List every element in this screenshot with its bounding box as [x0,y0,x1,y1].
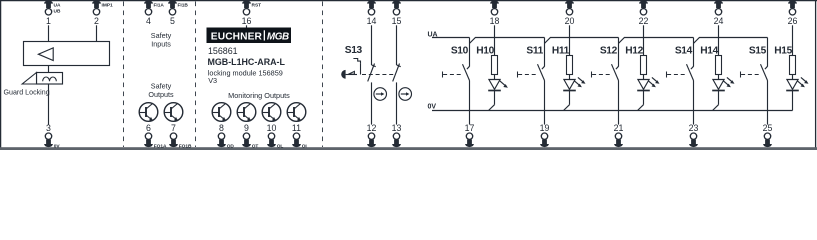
svg-text:UA: UA [54,2,61,8]
svg-text:IMP1: IMP1 [102,2,114,8]
svg-text:22: 22 [639,16,649,26]
svg-text:19: 19 [540,123,550,133]
transistor Q11 (monitoring output OI) [287,103,306,122]
dashed section separator [195,2,197,148]
svg-text:RST: RST [252,2,262,8]
UA supply rail [432,38,768,44]
terminal 14 (top plug) [367,1,377,26]
LED H12 [637,75,659,111]
EUCHNER MGB logo bar [207,28,292,44]
wire from terminal 2 to control block [96,25,98,41]
transistor Q9 (monitoring output OT) [237,103,256,122]
svg-text:S14: S14 [675,45,693,56]
svg-text:1: 1 [46,16,51,26]
svg-text:25: 25 [763,123,773,133]
terminal 11 (bottom plug) [292,123,308,149]
terminal 24 (top plug) [714,1,724,26]
indicator H10: wire from terminal [494,25,496,55]
switch S15 contact [761,38,768,125]
LED H10 [488,75,508,111]
terminal 10 (bottom plug) [267,123,284,149]
svg-text:S10: S10 [451,45,469,56]
svg-text:FO1A: FO1A [154,144,167,150]
svg-text:H10: H10 [476,45,494,56]
svg-text:9: 9 [244,123,249,133]
wire block to solenoid [48,66,50,73]
svg-text:locking module 156859: locking module 156859 [208,68,283,77]
svg-text:13: 13 [392,123,402,133]
terminal 5 (top plug) [168,0,188,25]
S13 actuation-direction circle (column 12) [374,88,387,101]
wire from terminal 1 to control block [48,25,50,41]
indicator H12: wire from terminal [643,25,645,55]
svg-text:Safety: Safety [151,81,172,90]
svg-text:Inputs: Inputs [151,40,171,49]
solenoid box [37,73,63,85]
svg-text:S12: S12 [600,45,618,56]
resistor of H12 [641,56,647,75]
terminal 4 (top plug) [144,0,164,25]
svg-text:156861: 156861 [208,46,238,56]
svg-text:S13: S13 [345,45,363,56]
terminal 20 (top plug) [565,1,575,26]
wire solenoid to terminal 3 [48,84,50,125]
svg-text:FI1B: FI1B [178,2,189,8]
svg-text:15: 15 [392,16,402,26]
actuation dashes for S14 [667,72,686,78]
svg-text:EUCHNER: EUCHNER [211,32,263,43]
terminal 17 (bottom plug) [465,123,475,147]
svg-text:21: 21 [614,123,624,133]
resistor of H15 [790,56,796,75]
LED H14 [712,75,734,111]
svg-text:10: 10 [267,123,277,133]
svg-text:11: 11 [292,123,301,133]
svg-text:Monitoring Outputs: Monitoring Outputs [228,91,290,100]
terminal 12 (bottom plug) [367,123,377,147]
svg-text:MGB-L1HC-ARA-L: MGB-L1HC-ARA-L [208,57,286,67]
svg-text:3: 3 [46,123,51,133]
frame: right border [815,0,817,148]
frame: left border [0,0,2,148]
svg-text:MGB: MGB [267,32,289,43]
terminal 25 (bottom plug) [763,123,773,147]
terminal 18 (top plug) [490,1,500,26]
S13 contact (column of terminals 15/13) [393,25,401,124]
frame: top border [0,0,817,2]
terminal 23 (bottom plug) [689,123,699,147]
wire terminal 16 to logo block [246,25,248,28]
svg-text:UB: UB [54,9,61,15]
svg-text:24: 24 [714,16,724,26]
svg-text:S15: S15 [749,45,767,56]
svg-text:26: 26 [788,16,798,26]
svg-text:H15: H15 [774,45,792,56]
lock flag triangle [22,73,36,85]
terminal 7 (bottom plug) [169,123,192,149]
svg-text:23: 23 [689,123,699,133]
svg-text:FI1A: FI1A [154,2,165,8]
svg-text:OD: OD [227,144,235,150]
S13 mechanical link dashes [362,74,394,76]
control block rectangle [24,42,110,66]
switch S12 contact [612,38,619,125]
resistor of H14 [716,56,722,75]
terminal 16 (top plug) [242,0,262,25]
svg-text:8: 8 [219,123,224,133]
S13 contact (column of terminals 14/12) [368,25,376,124]
0V return rail [432,110,793,112]
svg-text:H12: H12 [625,45,643,56]
transistor Q6 (safety output FO1A) [139,103,158,122]
svg-text:Outputs: Outputs [148,90,174,99]
svg-text:S11: S11 [526,45,543,56]
svg-text:17: 17 [465,123,475,133]
indicator H15: wire from terminal [792,25,794,55]
terminal 15 (top plug) [392,1,402,26]
terminal 8 (bottom plug) [217,123,234,149]
svg-text:0V: 0V [54,144,61,150]
S13 handle actuator symbol [341,59,360,79]
actuation dashes for S12 [592,72,611,78]
dashed section separator [123,2,125,148]
svg-text:V3: V3 [208,76,217,85]
LED H11 [563,75,585,111]
amplifier triangle inside block [38,48,53,61]
terminal 21 (bottom plug) [614,123,624,147]
transistor Q10 (monitoring output OL) [262,103,281,122]
actuation dashes for S15 [741,72,760,78]
transistor Q8 (monitoring output OD) [212,103,231,122]
terminal 13 (bottom plug) [392,123,402,147]
terminal 26 (top plug) [788,1,798,26]
svg-text:18: 18 [490,16,500,26]
terminal 9 (bottom plug) [242,123,258,149]
terminal 19 (bottom plug) [540,123,550,147]
svg-text:H11: H11 [552,45,570,56]
svg-text:14: 14 [367,16,377,26]
resistor of H11 [567,56,573,75]
svg-text:Guard Locking: Guard Locking [4,88,50,96]
svg-text:0V: 0V [428,103,437,110]
transistor Q7 (safety output FO1B) [164,103,183,122]
svg-text:FO1B: FO1B [179,144,192,150]
svg-text:OL: OL [277,144,284,150]
svg-text:16: 16 [242,16,252,26]
svg-text:5: 5 [170,16,175,26]
LED H15 [786,75,808,111]
indicator H14: wire from terminal [718,25,720,55]
actuation dashes for S10 [443,72,462,78]
svg-text:6: 6 [146,123,151,133]
solenoid coil squiggle [43,77,57,81]
svg-text:OI: OI [302,144,308,150]
svg-text:12: 12 [367,123,377,133]
svg-text:4: 4 [146,16,151,26]
indicator H11: wire from terminal [569,25,571,55]
frame: bottom gray bar [0,147,817,150]
actuation dashes for S11 [518,72,537,78]
svg-text:H14: H14 [700,45,718,56]
terminal 6 (bottom plug) [144,123,167,149]
S13 actuation-direction circle (column 13) [399,88,412,101]
switch S10 contact [463,38,470,125]
svg-text:7: 7 [171,123,176,133]
dashed section separator [322,2,324,148]
svg-text:OT: OT [252,144,259,150]
svg-text:2: 2 [94,16,99,26]
svg-text:20: 20 [565,16,575,26]
switch S11 contact [538,38,545,125]
terminal 22 (top plug) [639,1,649,26]
switch S14 contact [687,38,694,125]
terminal 3 (bottom plug) [44,123,60,149]
resistor of H10 [492,56,498,75]
terminal 2 (top plug) [92,0,113,25]
terminal 1 (top plug) [44,1,61,26]
